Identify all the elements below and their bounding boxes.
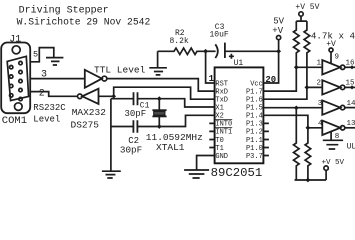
- svg-text:20: 20: [265, 75, 276, 85]
- svg-text:GND: GND: [215, 153, 228, 161]
- ground (caps): [102, 171, 121, 178]
- wire ULN GND: [330, 132, 332, 141]
- svg-text:Level: Level: [33, 115, 60, 125]
- wire P1.5 to inverter 3: [263, 107, 322, 109]
- svg-text:W.Sirichote 29 Nov 2542: W.Sirichote 29 Nov 2542: [17, 16, 151, 27]
- inverter buffer (receive): [85, 70, 102, 88]
- node TxD corner junction: [111, 94, 116, 99]
- wire resistor commons to +V: [295, 170, 327, 180]
- wire P1.6 to inverter 2: [263, 87, 322, 99]
- svg-text:P1.0: P1.0: [246, 145, 263, 153]
- svg-text:10uF: 10uF: [210, 31, 229, 40]
- svg-text:RS232C: RS232C: [33, 103, 66, 113]
- svg-text:P3.7: P3.7: [246, 153, 263, 161]
- resistor pull-up 2: [304, 21, 310, 87]
- ground (DB9 pin5): [46, 58, 63, 65]
- svg-text:89C2051: 89C2051: [211, 166, 263, 180]
- svg-text:15: 15: [346, 80, 355, 88]
- wire junction down to RST pin1: [206, 51, 215, 83]
- crystal XTAL1: [158, 99, 160, 111]
- svg-text:14: 14: [347, 100, 355, 108]
- svg-text:ULN2003: ULN2003: [347, 143, 355, 152]
- U1 left pin labels: [215, 80, 232, 161]
- wire pin3 to TTL buffer: [31, 78, 85, 80]
- INT0 INT1 overbars: [215, 120, 232, 128]
- ground (ULN pin 8): [323, 140, 343, 149]
- node Vcc junction: [276, 49, 281, 54]
- svg-text:+V: +V: [272, 26, 283, 36]
- connector J1 inner D face: [7, 56, 28, 100]
- U1 right pin labels: [246, 80, 263, 161]
- inverter driver (transmit): [82, 89, 98, 104]
- svg-text:5: 5: [33, 50, 38, 60]
- svg-text:X1: X1: [215, 104, 223, 112]
- capacitor C1: [111, 98, 140, 100]
- svg-text:Vcc: Vcc: [250, 80, 263, 88]
- svg-text:13: 13: [347, 120, 355, 128]
- svg-text:30pF: 30pF: [125, 109, 147, 119]
- svg-text:5V: 5V: [273, 17, 284, 27]
- svg-text:P1.2: P1.2: [246, 129, 263, 137]
- svg-text:J1: J1: [9, 34, 21, 45]
- svg-text:8.2k: 8.2k: [170, 37, 189, 46]
- wire buffer out to RxD: [107, 79, 215, 92]
- node crystal top: [157, 96, 162, 101]
- svg-text:COM1: COM1: [2, 115, 27, 127]
- ground (U1 GND): [184, 170, 209, 178]
- wire 5V to Vcc pin 20: [263, 40, 278, 83]
- wire X1 net: [140, 99, 215, 107]
- svg-text:P1.3: P1.3: [246, 121, 263, 129]
- node line1 junction: [294, 65, 299, 70]
- resistor pull-down 1: [294, 108, 300, 180]
- svg-text:MAX232: MAX232: [72, 107, 107, 118]
- resistor pull-up 1: [294, 21, 300, 67]
- wire pin5 to ground: [30, 48, 54, 62]
- U1 right stub pins P1.3 P1.2 P1.1 P1.0 P3.7: [263, 123, 269, 155]
- svg-text:Driving Stepper: Driving Stepper: [19, 4, 109, 16]
- svg-text:RxD: RxD: [215, 88, 228, 96]
- node crystal bottom: [157, 124, 162, 129]
- svg-text:2: 2: [39, 89, 45, 100]
- capacitor C3: [206, 50, 216, 52]
- node line3 junction: [294, 106, 299, 111]
- wire TxD to driver input: [99, 87, 215, 99]
- ground (R2): [149, 68, 167, 75]
- svg-text:TTL Level: TTL Level: [94, 65, 146, 76]
- svg-text:30pF: 30pF: [120, 145, 142, 156]
- svg-text:+V 5V: +V 5V: [295, 3, 319, 12]
- svg-text:TxD: TxD: [215, 97, 228, 105]
- wire pin2 to line driver output: [31, 92, 78, 97]
- node RST junction: [203, 49, 208, 54]
- svg-text:P1.1: P1.1: [246, 137, 263, 145]
- U1 left stub pins INT0 INT1 T0 T1: [209, 123, 214, 147]
- connector J1 top mounting hole: [12, 46, 20, 54]
- svg-text:RST: RST: [215, 80, 228, 88]
- connector J1 pins right column: [19, 61, 22, 64]
- connector J1 bottom mounting hole: [14, 103, 22, 111]
- resistor pull-down 2: [305, 128, 311, 180]
- svg-text:9: 9: [335, 53, 340, 61]
- svg-text:INT1: INT1: [215, 129, 232, 137]
- wire C1 C2 common to ground: [110, 99, 112, 171]
- svg-text:P1.5: P1.5: [246, 104, 263, 112]
- svg-text:P1.4: P1.4: [246, 113, 263, 121]
- svg-text:2: 2: [317, 80, 322, 88]
- node bottom junction: [306, 178, 311, 183]
- wire P1.7 to inverter 1: [263, 67, 322, 91]
- wire X2 net: [140, 115, 215, 126]
- svg-text:1: 1: [317, 60, 322, 68]
- node line4 junction: [306, 125, 311, 130]
- svg-text:P1.6: P1.6: [246, 97, 263, 105]
- svg-text:P1.7: P1.7: [246, 88, 263, 96]
- wire R2 left to ground: [157, 51, 159, 67]
- wire P1.4 to inverter 4: [263, 115, 322, 128]
- svg-text:DS275: DS275: [71, 119, 100, 130]
- connector J1 DB9 outer shell: [1, 43, 30, 114]
- svg-text:XTAL1: XTAL1: [156, 142, 185, 153]
- IC U1 89C2051 body: [215, 67, 264, 163]
- connector J1 pins left column: [10, 66, 13, 69]
- svg-text:16: 16: [346, 60, 355, 68]
- resistor R2: [158, 48, 206, 54]
- svg-text:T0: T0: [215, 137, 223, 145]
- node line2 junction: [305, 85, 310, 90]
- wire GND pin to ground: [197, 156, 215, 170]
- capacitor C2: [111, 126, 140, 128]
- svg-text:T1: T1: [215, 145, 223, 153]
